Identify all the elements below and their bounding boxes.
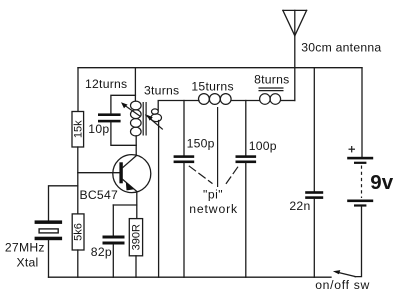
svg-text:Xtal: Xtal <box>17 255 39 269</box>
transformer primary winding 12 turns <box>131 101 142 136</box>
wire 100p bottom to ground rail <box>245 163 247 277</box>
transformer secondary tuning arrow <box>145 115 163 130</box>
capacitor 82p <box>103 236 125 245</box>
node pi input capacitor 150p branch <box>183 101 185 156</box>
battery 9v plus sign <box>349 146 356 152</box>
wire crystal bottom to ground rail <box>48 240 50 277</box>
wire antenna lead <box>294 10 296 100</box>
svg-text:BC547: BC547 <box>80 188 119 202</box>
antenna <box>283 10 307 35</box>
wire 22n branch from rail <box>313 68 315 192</box>
capacitor 22n <box>305 191 323 199</box>
wire 15k bottom to base junction to 5k6 top <box>77 147 79 214</box>
wire secondary bottom to ground rail <box>158 121 160 278</box>
svg-text:9v: 9v <box>370 171 393 194</box>
svg-text:on/off sw: on/off sw <box>315 278 370 292</box>
switch on/off lever <box>333 270 356 277</box>
wire emitter junction to 82p <box>113 204 137 206</box>
svg-text:150p: 150p <box>187 136 215 150</box>
svg-text:10p: 10p <box>88 122 109 136</box>
svg-text:network: network <box>189 202 238 216</box>
svg-text:5k6: 5k6 <box>73 223 85 241</box>
wire 82p top <box>112 205 114 236</box>
wire 10p bottom to collector node <box>111 122 136 145</box>
leader line pi network to 150p <box>189 166 213 184</box>
wire ground bottom rail <box>49 276 332 278</box>
svg-text:3turns: 3turns <box>144 84 179 98</box>
wire rail to transformer primary top <box>134 68 136 101</box>
resistor 15k <box>72 112 84 148</box>
svg-text:82p: 82p <box>91 245 112 259</box>
wire 15turns to 8turns <box>231 100 259 102</box>
svg-text:12turns: 12turns <box>85 77 127 91</box>
wire transformer bottom to collector <box>135 136 137 156</box>
svg-text:15k: 15k <box>72 120 84 138</box>
wire secondary top to pi network <box>158 101 199 111</box>
node pi output capacitor 100p branch <box>245 101 247 156</box>
svg-text:22n: 22n <box>289 199 310 213</box>
wire crystal top to base node <box>49 186 78 221</box>
transformer core <box>143 102 146 136</box>
wire 390R bottom to ground rail <box>135 256 137 277</box>
resistor 390R <box>129 219 142 256</box>
inductor 8turns core <box>259 88 284 91</box>
svg-text:30cm antenna: 30cm antenna <box>301 41 381 55</box>
svg-text:15turns: 15turns <box>191 79 233 93</box>
wire rail to battery top <box>361 68 363 157</box>
transistor BC547 <box>113 155 151 193</box>
svg-text:100p: 100p <box>249 139 277 153</box>
battery 9v bottom cell <box>347 200 373 207</box>
wire 150p bottom to ground rail <box>183 163 185 277</box>
wire rail to 15k top <box>77 68 79 112</box>
wire 5k6 bottom to ground rail <box>77 250 79 277</box>
transformer primary tuning arrow <box>121 102 141 116</box>
wire top supply rail <box>78 67 362 69</box>
wire 82p bottom to ground rail <box>112 245 114 278</box>
wire battery dashed <box>361 166 363 199</box>
wire 8turns to antenna <box>281 100 295 102</box>
wire battery bottom to switch <box>355 207 362 277</box>
battery 9v top cell <box>347 157 373 164</box>
crystal 27MHz Xtal <box>35 220 63 240</box>
inductor 8turns <box>260 94 281 105</box>
transformer secondary winding 3 turns <box>151 109 162 122</box>
wire 10p top to primary top <box>111 95 135 113</box>
inductor 15turns <box>199 94 232 105</box>
wire 22n bottom to ground rail <box>313 199 315 277</box>
resistor 5k6 <box>72 214 84 250</box>
svg-text:"pi": "pi" <box>203 188 223 202</box>
svg-text:8turns: 8turns <box>254 73 289 87</box>
leader line pi network to 100p <box>225 167 238 186</box>
wire base node horizontal <box>78 172 120 174</box>
leader line pi network to 15turns <box>217 107 219 187</box>
capacitor 100p <box>236 155 257 163</box>
wire emitter to 390R <box>136 192 138 219</box>
capacitor 150p <box>174 155 195 163</box>
svg-text:27MHz: 27MHz <box>5 241 45 255</box>
capacitor 10p <box>98 113 121 122</box>
svg-text:390R: 390R <box>131 224 143 250</box>
